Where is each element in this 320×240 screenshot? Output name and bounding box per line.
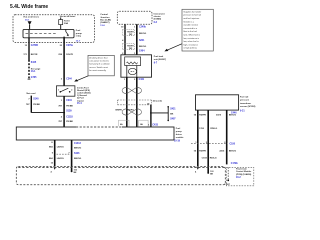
svg-text:C244: C244 [66, 99, 72, 102]
svg-text:PK/BK: PK/BK [33, 104, 40, 106]
svg-text:switch (9341): switch (9341) [77, 92, 91, 95]
svg-text:S106: S106 [74, 153, 80, 155]
svg-text:relay: relay [76, 35, 82, 37]
svg-text:2: 2 [71, 90, 72, 92]
svg-text:9-21: 9-21 [240, 111, 245, 113]
svg-text:DG/YE: DG/YE [66, 54, 73, 56]
svg-text:10-2: 10-2 [236, 177, 241, 179]
svg-text:be reset manually.: be reset manually. [89, 69, 106, 72]
svg-text:Sender is a: Sender is a [183, 20, 194, 23]
svg-text:Fuel tank: Fuel tank [154, 55, 164, 58]
svg-text:10-19: 10-19 [174, 140, 181, 142]
svg-text:transducer: transducer [240, 102, 251, 105]
svg-text:Hot at all times: Hot at all times [60, 15, 76, 18]
svg-text:[W]: [W] [129, 48, 133, 50]
svg-text:impact: impact [77, 99, 84, 102]
svg-text:C179b: C179b [231, 163, 238, 165]
svg-text:fuel pump if a collision: fuel pump if a collision [89, 64, 110, 66]
svg-text:BK/OG: BK/OG [229, 114, 236, 116]
svg-text:sensor (9C052): sensor (9C052) [240, 106, 256, 108]
svg-text:15-4: 15-4 [77, 102, 82, 105]
svg-text:Junction: Junction [100, 16, 110, 19]
svg-text:low; when fuel is: low; when fuel is [183, 41, 198, 43]
svg-text:C404: C404 [139, 49, 145, 52]
svg-text:C441: C441 [139, 78, 145, 81]
svg-text:pressure to fuel rail: pressure to fuel rail [183, 14, 201, 17]
svg-text:C270e: C270e [66, 45, 73, 47]
svg-text:BN/OG: BN/OG [74, 158, 81, 160]
svg-text:Control Module: Control Module [236, 170, 252, 173]
svg-text:S407: S407 [170, 117, 176, 120]
svg-text:C1413: C1413 [74, 142, 81, 145]
svg-text:pressure: pressure [240, 100, 250, 102]
svg-text:BK/OG: BK/OG [139, 33, 146, 35]
svg-text:C180: C180 [230, 144, 236, 146]
svg-text:Fuel: Fuel [176, 128, 181, 130]
svg-text:PK/BK: PK/BK [66, 121, 73, 123]
svg-text:cluster: cluster [154, 15, 161, 18]
svg-text:BK/YE: BK/YE [31, 54, 38, 56]
svg-text:2415: 2415 [219, 150, 225, 153]
svg-text:BN/PK: BN/PK [116, 110, 123, 112]
svg-text:C433: C433 [152, 124, 158, 127]
svg-text:5.4L Wide frame: 5.4L Wide frame [10, 4, 48, 10]
svg-text:13-7: 13-7 [76, 41, 81, 43]
svg-text:low, resistance is: low, resistance is [183, 37, 199, 40]
svg-text:high, resistance: high, resistance [183, 43, 198, 46]
svg-text:S139: S139 [66, 111, 72, 113]
svg-text:Central: Central [100, 13, 108, 16]
svg-text:30-1: 30-1 [25, 19, 30, 21]
svg-text:(14A067): (14A067) [100, 21, 109, 24]
svg-text:Supplies fuel under: Supplies fuel under [183, 10, 201, 13]
svg-text:Fuel rail: Fuel rail [240, 96, 249, 98]
svg-text:BK/OG: BK/OG [229, 151, 236, 153]
svg-text:BK: BK [170, 113, 174, 115]
svg-text:variable resistor: variable resistor [183, 24, 198, 27]
svg-text:unit (9H307): unit (9H307) [154, 58, 167, 61]
svg-text:13-6: 13-6 [100, 25, 105, 27]
svg-text:3074: 3074 [216, 113, 222, 116]
svg-text:module: module [176, 137, 184, 139]
svg-text:RD/PU: RD/PU [127, 110, 134, 112]
svg-text:S421: S421 [170, 107, 176, 110]
svg-text:float in the fuel: float in the fuel [183, 30, 197, 33]
svg-text:is high (ohms).: is high (ohms). [183, 48, 197, 50]
svg-text:tank. When fuel is: tank. When fuel is [183, 34, 200, 37]
svg-text:and fuel injectors.: and fuel injectors. [183, 17, 200, 20]
svg-text:Powertrain: Powertrain [236, 168, 247, 171]
svg-text:30A: 30A [64, 22, 68, 25]
svg-text:Shutoff (IFS): Shutoff (IFS) [77, 89, 90, 92]
svg-text:S140: S140 [33, 97, 39, 100]
svg-text:1760: 1760 [199, 128, 205, 130]
svg-text:Instrument: Instrument [154, 12, 165, 15]
svg-text:S201: S201 [139, 40, 145, 42]
svg-text:13-1: 13-1 [31, 71, 36, 73]
svg-text:PK/BK: PK/BK [66, 106, 73, 108]
svg-text:1: 1 [58, 90, 59, 92]
svg-text:A safety device that: A safety device that [89, 57, 107, 60]
svg-text:pump: pump [176, 131, 183, 133]
svg-text:C240b: C240b [139, 25, 146, 28]
svg-text:Hot at all times: Hot at all times [24, 16, 40, 19]
svg-text:Not used: Not used [27, 92, 37, 95]
svg-text:BK/OG: BK/OG [139, 46, 146, 48]
svg-text:RD/LG: RD/LG [210, 128, 217, 130]
svg-text:C1118: C1118 [66, 117, 73, 119]
svg-text:G705: G705 [31, 77, 37, 79]
svg-text:driver: driver [176, 134, 182, 136]
svg-text:(10849): (10849) [154, 18, 162, 21]
svg-text:connected to a: connected to a [183, 27, 197, 30]
svg-text:[W]: [W] [129, 34, 133, 36]
svg-text:S105: S105 [31, 62, 37, 64]
svg-text:occurs. Switch must: occurs. Switch must [89, 66, 108, 69]
svg-text:cuts power to electric: cuts power to electric [89, 60, 109, 63]
svg-text:Inertia Fuel: Inertia Fuel [77, 86, 89, 89]
svg-text:RD/LG: RD/LG [210, 157, 217, 159]
svg-text:RD/PK: RD/PK [199, 114, 206, 116]
svg-text:(Ground): (Ground) [153, 100, 162, 103]
svg-text:C1927: C1927 [224, 184, 231, 186]
svg-text:C183: C183 [202, 157, 208, 159]
svg-text:LB/OG: LB/OG [57, 146, 64, 148]
svg-text:BN/OG: BN/OG [74, 148, 81, 150]
svg-text:(PCM) (12A650): (PCM) (12A650) [236, 173, 252, 176]
svg-text:C244: C244 [66, 78, 72, 81]
svg-text:LB/OG: LB/OG [57, 158, 64, 160]
svg-text:C270B: C270B [31, 45, 38, 47]
svg-text:RD/PK: RD/PK [199, 151, 206, 153]
